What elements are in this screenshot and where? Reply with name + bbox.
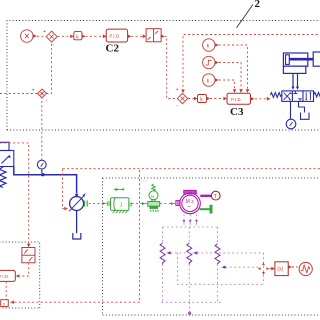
svg-text:+: + — [176, 87, 179, 93]
electric motor M1 — [176, 190, 200, 213]
pump drain line — [76, 211, 78, 234]
torque sensor T1 — [211, 191, 220, 200]
converter block (two rows) — [22, 248, 35, 263]
resistor R3 — [215, 244, 220, 264]
tank T1 — [301, 113, 310, 120]
main hydraulic supply line — [14, 167, 77, 194]
scope SC1 — [299, 262, 312, 275]
svg-text:P.I.D.: P.I.D. — [231, 97, 242, 102]
control wire jog — [178, 253, 264, 284]
step source circle — [203, 56, 215, 68]
variable displacement pump P1 — [70, 197, 84, 211]
control wire upper — [171, 252, 264, 254]
hydraulic cylinder — [283, 52, 320, 73]
coupling rod (green) — [200, 208, 210, 210]
reference wire from left edge — [0, 93, 37, 95]
subsystem box 2 (bottom-right dotted frame) — [103, 178, 320, 315]
resistor R1 — [160, 243, 165, 264]
control wire R3 — [226, 266, 259, 268]
port line A — [292, 73, 294, 88]
tank return line — [299, 101, 305, 112]
wire C2 to converter — [131, 35, 142, 37]
svg-text:C3: C3 — [230, 106, 244, 118]
control arrow R3 — [222, 266, 226, 269]
relief valve (cropped at left edge) — [0, 142, 14, 187]
wire source to sum S1 — [37, 35, 46, 37]
wire S2 to gain K2 — [188, 98, 194, 100]
wire C1 to transducer — [5, 281, 7, 299]
pump control wire (from right, red) — [63, 168, 320, 170]
wire converter to sum S2 (down then right) — [165, 36, 177, 98]
signal source X1 — [21, 30, 37, 42]
wire K1 to PID C2 — [86, 35, 103, 37]
cylinder barrel — [283, 53, 307, 66]
valve parallel arrows cell — [306, 92, 310, 100]
svg-text:P.I.D.: P.I.D. — [110, 34, 121, 39]
pressure supply port line — [290, 101, 292, 119]
svg-text:-: - — [176, 103, 178, 109]
control arrow R2 — [193, 251, 197, 254]
gain block K2 — [198, 95, 207, 103]
rotary load J1 — [108, 188, 131, 214]
valve body — [282, 91, 314, 102]
control arrow R1 — [167, 251, 171, 254]
command wire from left edge to box3 — [0, 143, 29, 244]
sense wire vertical — [263, 253, 265, 284]
svg-text:+: + — [43, 29, 46, 35]
ground (zero volt) — [189, 302, 191, 312]
valve right spring — [314, 93, 320, 97]
svg-text:P.I.D.: P.I.D. — [0, 274, 10, 279]
valve left spring — [270, 93, 282, 98]
wire S3 up to S1 — [47, 42, 52, 93]
summing junction S1 — [46, 31, 57, 42]
svg-text:~: ~ — [187, 205, 191, 211]
gain circle K3 — [203, 39, 215, 51]
shaft wire sensor to motor — [160, 203, 175, 205]
svg-text:ω: ω — [151, 193, 155, 199]
annotation leader line — [237, 5, 254, 28]
svg-text:-: - — [53, 42, 55, 48]
speed sensor W1 — [148, 184, 160, 209]
coupling flange — [210, 205, 213, 214]
feedback wire along bottom — [14, 169, 139, 303]
svg-text:J: J — [120, 202, 123, 208]
piston rod — [290, 58, 314, 61]
shaft wire J to speed sensor — [132, 203, 148, 205]
hydraulic node — [41, 173, 44, 176]
svg-text:T: T — [214, 194, 217, 200]
pressure source gauge — [286, 119, 296, 129]
resistor leads top — [163, 227, 218, 244]
motor shaft to torque sensor — [200, 195, 211, 197]
rod end block — [313, 52, 320, 66]
gain circle K4 — [203, 74, 215, 86]
wire C3 to valve — [255, 98, 267, 100]
neutral rail wire — [162, 301, 221, 303]
PID controller C3 — [227, 93, 251, 104]
valve crossed arrows cell — [284, 93, 291, 100]
shaft wire pump to J — [89, 202, 108, 204]
svg-text:+: + — [32, 88, 35, 94]
wire to scope — [292, 266, 298, 268]
piston — [286, 55, 290, 65]
subsystem box 1 (top dotted frame) — [7, 21, 320, 131]
pressure feedback wire up to S3 — [41, 98, 43, 160]
PID controller C1 (cropped) — [0, 270, 15, 281]
phase rail wire — [163, 226, 218, 228]
pressure gauge PG1 — [37, 160, 46, 169]
cylinder base — [283, 66, 305, 73]
valve closed-center cell — [294, 91, 302, 102]
arrow into pump — [75, 194, 79, 198]
function block fx — [275, 262, 288, 276]
svg-text:2: 2 — [255, 0, 261, 10]
svg-text:10.0: 10.0 — [141, 178, 150, 183]
svg-text:C2: C2 — [106, 43, 120, 55]
subsystem box 3 (bottom-left dotted frame) — [0, 242, 40, 308]
PID controller C2 — [106, 29, 127, 42]
transducer block — [1, 300, 9, 307]
motor phase pins — [184, 215, 197, 228]
svg-text:{x}: {x} — [277, 267, 283, 273]
wire K3 to C3 pin1 — [219, 45, 248, 90]
pump shaft port (green) — [85, 201, 88, 207]
feedback wire from position sensor (top right) — [183, 35, 320, 91]
directional valve V1 — [270, 91, 320, 102]
wire K2 to PID C3 — [210, 98, 223, 100]
tank T2 — [73, 233, 81, 239]
summing junction S3 — [38, 89, 47, 98]
wire S1 to gain K1 — [58, 35, 70, 37]
signal converter block (two cells) — [146, 29, 161, 42]
svg-text:-: - — [46, 98, 48, 104]
gain block K1 — [74, 32, 82, 40]
wire K4 to C3 pin3 — [219, 80, 235, 90]
summing junction S2 — [177, 93, 187, 103]
wire step to C3 pin2 — [219, 63, 241, 90]
wire junction to function block — [270, 268, 272, 270]
resistor R2 — [187, 243, 192, 264]
port line B — [297, 73, 299, 88]
wire converter to PID C1 — [20, 263, 29, 276]
resistor leads bottom — [163, 264, 218, 302]
measuring junction — [258, 262, 270, 275]
